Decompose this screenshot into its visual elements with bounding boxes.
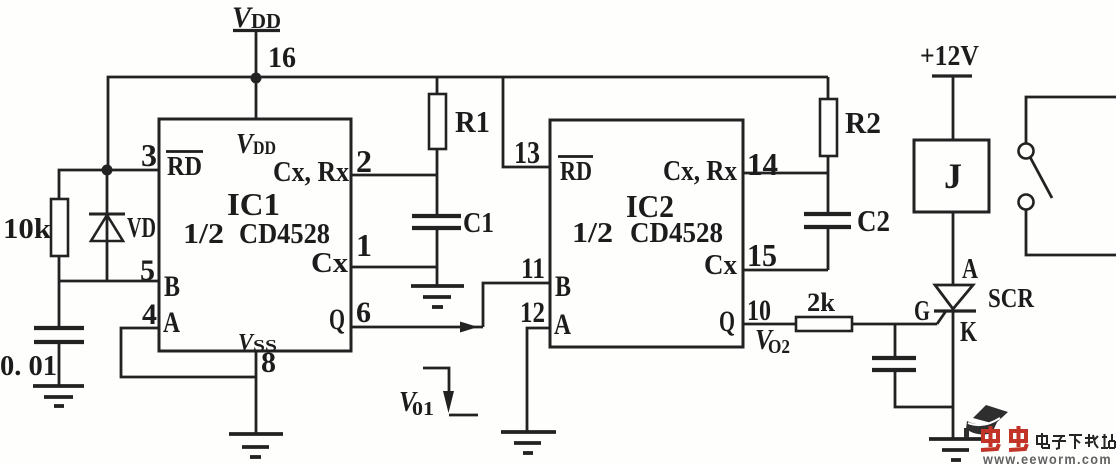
svg-text:12: 12 bbox=[520, 296, 545, 329]
wire pin16 stem bbox=[255, 77, 258, 119]
power VDD bar bbox=[233, 29, 280, 32]
svg-text:0. 01: 0. 01 bbox=[0, 351, 57, 382]
wire pin15 bbox=[743, 269, 828, 272]
wire C2 to pin15 bbox=[827, 227, 830, 270]
capacitor gate bbox=[894, 324, 897, 358]
svg-text:K: K bbox=[960, 316, 977, 348]
wire 10k bottom bbox=[58, 256, 61, 328]
wire 2k to gate bbox=[852, 323, 937, 326]
svg-text:SCR: SCR bbox=[988, 283, 1034, 313]
svg-text:A: A bbox=[962, 254, 979, 285]
svg-text:SS: SS bbox=[253, 336, 277, 355]
wire pin2 bbox=[351, 174, 437, 177]
svg-text:3: 3 bbox=[141, 137, 157, 173]
switch contact upper bbox=[1026, 97, 1116, 143]
wire pin6 Q bbox=[351, 326, 483, 329]
svg-text:11: 11 bbox=[521, 252, 545, 285]
wire pin10 bbox=[743, 323, 796, 326]
svg-text:1: 1 bbox=[356, 227, 372, 263]
svg-text:B: B bbox=[164, 270, 180, 303]
watermark site name bbox=[1037, 433, 1115, 449]
svg-text:CD4528: CD4528 bbox=[630, 217, 723, 249]
wire VDD stem bbox=[255, 30, 258, 77]
wire top supply rail bbox=[108, 77, 828, 170]
arrow V01 bbox=[443, 391, 454, 413]
diode VD vertical wire bbox=[106, 170, 109, 281]
ground C1 bbox=[411, 286, 464, 307]
wire relay to SCR bbox=[952, 212, 955, 285]
svg-text:14: 14 bbox=[747, 146, 778, 182]
svg-text:G: G bbox=[914, 296, 930, 327]
svg-text:13: 13 bbox=[514, 134, 540, 170]
svg-text:www.eeworm.com: www.eeworm.com bbox=[982, 451, 1112, 465]
capacitor C1 bbox=[412, 216, 461, 228]
wire pin3 bbox=[59, 170, 159, 199]
svg-text:C2: C2 bbox=[857, 203, 890, 238]
relay J box bbox=[914, 140, 989, 212]
ground left bbox=[33, 386, 84, 406]
waveform V01 symbol bbox=[423, 368, 449, 391]
wire pin4 bbox=[121, 328, 256, 377]
svg-text:Cx, Rx: Cx, Rx bbox=[663, 156, 737, 187]
svg-text:16: 16 bbox=[268, 41, 296, 74]
wire +12V to relay bbox=[952, 76, 955, 140]
svg-text:O2: O2 bbox=[768, 336, 790, 358]
svg-text:A: A bbox=[554, 308, 571, 341]
svg-text:2k: 2k bbox=[807, 288, 836, 317]
svg-text:CD4528: CD4528 bbox=[239, 218, 330, 250]
svg-text:RD: RD bbox=[560, 156, 592, 186]
svg-text:1/2: 1/2 bbox=[572, 217, 613, 249]
svg-text:RD: RD bbox=[167, 151, 202, 181]
svg-text:C1: C1 bbox=[463, 207, 494, 239]
wire gate diagonal bbox=[937, 311, 946, 324]
svg-text:A: A bbox=[163, 306, 180, 339]
svg-text:R2: R2 bbox=[845, 105, 881, 140]
svg-text:10k: 10k bbox=[3, 214, 51, 245]
capacitor C2 bbox=[804, 214, 851, 227]
node junction 16 bbox=[251, 73, 262, 84]
diode VD bbox=[89, 214, 125, 241]
svg-text:R1: R1 bbox=[455, 104, 490, 139]
wire Q up to pin11 bbox=[483, 283, 550, 327]
svg-text:+12V: +12V bbox=[920, 40, 979, 72]
watermark cap icon bbox=[964, 405, 1008, 438]
wire SCR cathode down bbox=[952, 311, 955, 439]
svg-text:6: 6 bbox=[356, 296, 371, 329]
thyristor SCR bbox=[934, 285, 976, 311]
resistor R2 bbox=[827, 77, 830, 99]
svg-text:Cx: Cx bbox=[311, 247, 349, 279]
resistor R1 bbox=[436, 77, 439, 94]
wire pin5 bbox=[59, 280, 159, 283]
ground IC1 bbox=[229, 434, 283, 457]
resistor 2k bbox=[796, 317, 852, 331]
svg-text:15: 15 bbox=[747, 237, 777, 273]
switch contact lower bbox=[1019, 195, 1034, 210]
svg-text:1/2: 1/2 bbox=[183, 218, 224, 250]
svg-text:Cx: Cx bbox=[704, 249, 737, 281]
wire pin8 stem bbox=[255, 351, 258, 434]
svg-text:J: J bbox=[944, 156, 962, 196]
svg-text:5: 5 bbox=[140, 254, 155, 287]
svg-text:Q: Q bbox=[329, 303, 345, 336]
svg-text:Cx, Rx: Cx, Rx bbox=[273, 157, 349, 188]
node junction pin3 bbox=[102, 165, 113, 176]
svg-text:B: B bbox=[555, 270, 571, 303]
svg-text:Q: Q bbox=[719, 305, 735, 338]
IC1 box bbox=[159, 119, 351, 351]
power +12V bar bbox=[932, 74, 972, 77]
svg-text:4: 4 bbox=[142, 298, 157, 331]
resistor 10k bbox=[51, 199, 68, 256]
wire gate cap to cathode bbox=[895, 370, 953, 407]
wire pin1 bbox=[351, 266, 437, 269]
switch blade bbox=[1030, 157, 1052, 198]
IC2 box bbox=[550, 120, 743, 347]
capacitor 0.01 bbox=[34, 328, 84, 342]
svg-text:01: 01 bbox=[412, 398, 434, 420]
wire pin12 bbox=[527, 328, 550, 432]
watermark chongchong bbox=[981, 426, 1027, 450]
svg-text:DD: DD bbox=[253, 138, 276, 159]
svg-text:2: 2 bbox=[356, 143, 372, 179]
ground SCR bbox=[929, 439, 982, 460]
wire pin14 bbox=[743, 172, 828, 175]
wire pin13 bbox=[503, 77, 550, 167]
svg-text:10: 10 bbox=[747, 294, 771, 327]
wire C1 to ground bbox=[436, 228, 439, 286]
svg-text:VD: VD bbox=[127, 213, 156, 244]
svg-text:IC1: IC1 bbox=[227, 186, 280, 222]
wire cap to ground bbox=[58, 342, 61, 386]
svg-text:DD: DD bbox=[251, 9, 281, 33]
arrow pin6 bbox=[460, 322, 478, 333]
ground IC2 bbox=[501, 432, 556, 453]
